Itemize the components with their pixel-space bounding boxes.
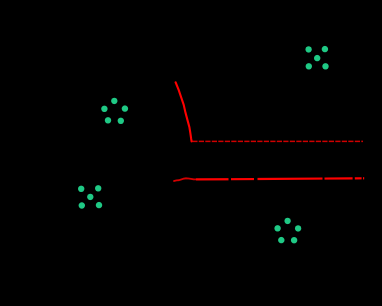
red lower dashed line segment 5 <box>355 177 362 179</box>
green cluster 1 (pentagon, upper-left) <box>101 98 128 124</box>
red lower dashed line segment 4 <box>325 177 353 179</box>
green cluster 4 (pentagon, lower-right) <box>274 218 301 244</box>
green cluster 3 (X shape, lower-left) <box>78 185 102 209</box>
red dashed horizontal asymptote (upper) <box>192 140 363 142</box>
red lower line start wiggle <box>174 178 196 181</box>
red lower dashed line segment 2 <box>231 178 254 180</box>
red lower dashed line segment 3 <box>258 177 323 180</box>
red lower dashed line segment 6 <box>363 177 364 179</box>
green cluster 2 (X shape, upper-right) <box>305 46 328 70</box>
red solid curve (upper branch descending) <box>176 82 192 141</box>
red lower dashed line segment 1 <box>196 178 229 180</box>
